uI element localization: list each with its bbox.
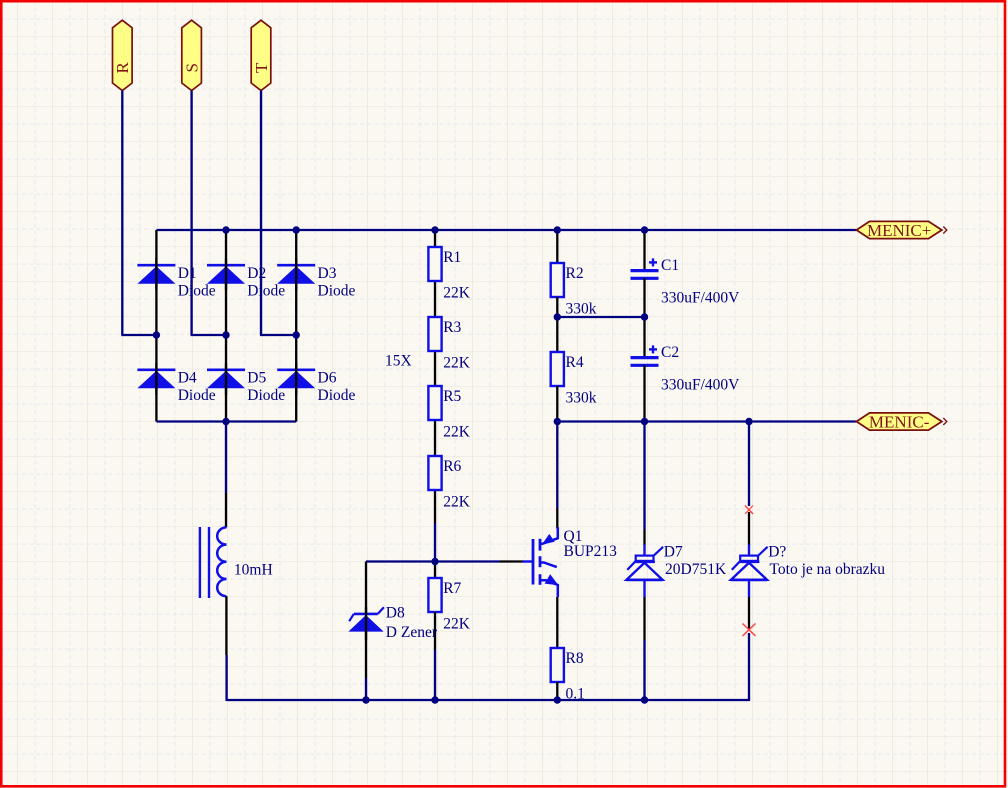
- svg-text:Diode: Diode: [247, 282, 285, 299]
- svg-text:D1: D1: [178, 265, 197, 282]
- svg-text:D2: D2: [247, 265, 266, 282]
- no-ERC marker top: [745, 506, 753, 515]
- pin C1 bottom: [643, 278, 645, 317]
- wire capacitor midpoint: [557, 316, 644, 318]
- svg-text:22K: 22K: [443, 423, 471, 440]
- svg-text:Diode: Diode: [318, 387, 356, 404]
- pin overdraw D1: [155, 258, 157, 290]
- pin D8 top: [365, 562, 367, 614]
- wire S vertical: [190, 91, 192, 335]
- pin overdraw D5: [225, 363, 227, 395]
- wire T to D3 node: [260, 334, 296, 336]
- svg-text:0.1: 0.1: [566, 685, 585, 702]
- pin R2 bottom: [556, 297, 558, 317]
- capacitor C1: [631, 257, 741, 307]
- svg-text:S: S: [182, 63, 201, 72]
- port MENIC+: [857, 221, 947, 240]
- pin R4 top: [556, 317, 558, 352]
- pin D? bottom: [748, 597, 750, 629]
- diode D1: [137, 265, 215, 300]
- pin inductor top: [225, 493, 227, 528]
- wire/pin D2-D5 column: [225, 230, 227, 422]
- svg-text:R5: R5: [443, 388, 461, 405]
- pin Q1 gate: [500, 560, 523, 562]
- pin R5-R6: [434, 420, 436, 456]
- svg-text:Diode: Diode: [318, 282, 356, 299]
- junction dot 5: [641, 226, 648, 233]
- resistor R5: [428, 386, 470, 440]
- pin R4 bottom: [556, 386, 558, 422]
- capacitor C2: [631, 344, 741, 394]
- transistor Q1 BUP213: [523, 527, 618, 597]
- svg-text:22K: 22K: [443, 354, 471, 371]
- wire R vertical: [121, 91, 123, 335]
- svg-text:D?: D?: [768, 544, 786, 561]
- svg-text:R3: R3: [443, 319, 461, 336]
- wire top bus MENIC+ net: [156, 229, 856, 231]
- svg-text:Toto je na obrazku: Toto je na obrazku: [770, 561, 886, 578]
- pin overdraw D6: [295, 363, 297, 395]
- wire gate node to R7: [434, 562, 436, 579]
- svg-text:15X: 15X: [385, 353, 412, 370]
- junction dot 15: [431, 558, 438, 565]
- wire/pin D3-D6 column: [295, 230, 297, 422]
- svg-text:R: R: [113, 61, 132, 73]
- pin R3-R5: [434, 351, 436, 386]
- resistor R1: [428, 247, 470, 301]
- wire T vertical: [260, 91, 262, 335]
- pin R8 bottom: [556, 682, 558, 700]
- wire R6 to gate node: [434, 523, 436, 562]
- pin overdraw D2: [225, 258, 227, 290]
- wire R7 to bottom bus: [434, 650, 436, 700]
- junction dot 6: [153, 331, 160, 338]
- wire D7 to bottom bus: [643, 640, 645, 700]
- pin R2 top: [556, 230, 558, 263]
- junction dot 1: [222, 226, 229, 233]
- wire bottom bus: [227, 699, 749, 701]
- pin C2 top: [643, 317, 645, 358]
- svg-text:MENIC+: MENIC+: [867, 221, 931, 240]
- pin D8 bottom: [365, 632, 367, 678]
- svg-text:Diode: Diode: [178, 282, 216, 299]
- wire D? to bottom bus: [748, 633, 750, 701]
- port R: [113, 20, 133, 90]
- resistor R3: [428, 317, 470, 371]
- wire D8 to bottom bus: [365, 678, 367, 700]
- port S: [182, 20, 202, 90]
- svg-text:D5: D5: [247, 369, 266, 386]
- svg-text:D7: D7: [664, 544, 683, 561]
- junction dot 16: [362, 696, 369, 703]
- svg-text:R6: R6: [443, 458, 461, 475]
- wire gate net horizontal: [366, 560, 500, 562]
- wire bus to Q1 collector: [556, 422, 558, 509]
- svg-text:330k: 330k: [566, 389, 597, 406]
- svg-text:D3: D3: [318, 265, 337, 282]
- svg-text:T: T: [252, 62, 271, 73]
- pin R1 top: [434, 230, 436, 247]
- svg-text:330k: 330k: [566, 300, 597, 317]
- pin D7 bottom: [643, 597, 645, 640]
- svg-text:R7: R7: [443, 580, 461, 597]
- junction dot 12: [554, 418, 561, 425]
- wire R to D1 node: [121, 334, 156, 336]
- port MENIC-: [857, 412, 947, 431]
- junction dot 19: [641, 696, 648, 703]
- svg-text:BUP213: BUP213: [564, 543, 618, 560]
- pin overdraw D3: [295, 258, 297, 290]
- svg-text:D4: D4: [178, 369, 197, 386]
- resistor R6: [428, 456, 470, 510]
- junction dot 17: [431, 696, 438, 703]
- wire/pin D1-D4 column: [155, 230, 157, 422]
- junction dot 14: [745, 418, 752, 425]
- svg-text:R1: R1: [443, 249, 461, 266]
- pin inductor bottom: [225, 596, 227, 655]
- wire MENIC- bus: [557, 420, 856, 422]
- pin overdraw D4: [155, 363, 157, 395]
- diode D8 zener: [348, 604, 437, 641]
- pin R6 bottom: [434, 490, 436, 523]
- inductor L 10mH: [200, 527, 273, 598]
- junction dot 7: [222, 331, 229, 338]
- pin R1-R3: [434, 281, 436, 317]
- junction dot 11: [641, 313, 648, 320]
- svg-text:C1: C1: [661, 257, 679, 274]
- pin D8 overdraw: [365, 607, 367, 640]
- resistor R2: [551, 263, 597, 317]
- svg-text:R4: R4: [566, 354, 584, 371]
- junction dot 13: [641, 418, 648, 425]
- junction dot 18: [554, 696, 561, 703]
- resistor R8: [551, 648, 585, 702]
- diode D5: [207, 369, 285, 404]
- junction dot 3: [431, 226, 438, 233]
- svg-text:10mH: 10mH: [234, 561, 273, 578]
- junction dot 10: [554, 313, 561, 320]
- pin R7 bottom: [434, 612, 436, 650]
- wire rail to inductor: [225, 422, 227, 494]
- svg-text:22K: 22K: [443, 615, 471, 632]
- pin D7 top: [643, 530, 645, 545]
- svg-text:20D751K: 20D751K: [665, 561, 727, 578]
- wire bus to D7: [643, 422, 645, 531]
- diode D2: [207, 265, 285, 300]
- junction dot 9: [222, 418, 229, 425]
- resistor R4: [551, 352, 597, 406]
- port T: [251, 20, 271, 90]
- svg-text:22K: 22K: [443, 493, 471, 510]
- svg-text:Diode: Diode: [178, 387, 216, 404]
- svg-text:Diode: Diode: [247, 387, 285, 404]
- svg-text:22K: 22K: [443, 284, 471, 301]
- svg-text:R8: R8: [566, 650, 584, 667]
- pin C1 top: [643, 230, 645, 271]
- pin Q1 source: [556, 597, 558, 648]
- varistor D7: [627, 544, 727, 597]
- wire inductor to bottom bus: [225, 655, 227, 701]
- no-ERC marker bottom: [743, 624, 756, 637]
- svg-text:R2: R2: [566, 265, 584, 282]
- resistor R7: [428, 578, 470, 632]
- pin D? top: [748, 512, 750, 545]
- diode D3: [277, 265, 355, 300]
- wire lower diode rail: [156, 420, 296, 422]
- junction dot 8: [293, 331, 300, 338]
- diode D4: [137, 369, 215, 404]
- pin C2 bottom: [643, 365, 645, 421]
- wire bus to D?: [748, 422, 750, 507]
- svg-text:D8: D8: [386, 604, 405, 621]
- svg-text:MENIC-: MENIC-: [869, 412, 930, 431]
- junction dot 4: [554, 226, 561, 233]
- varistor D?: [731, 544, 885, 597]
- svg-text:D6: D6: [318, 369, 337, 386]
- wire S to D2 node: [191, 334, 226, 336]
- diode D6: [277, 369, 355, 404]
- svg-text:330uF/400V: 330uF/400V: [661, 377, 740, 394]
- pin Q1 collector: [556, 508, 558, 529]
- svg-text:330uF/400V: 330uF/400V: [661, 290, 740, 307]
- svg-text:D Zener: D Zener: [386, 624, 438, 641]
- junction dot 2: [293, 226, 300, 233]
- svg-text:C2: C2: [661, 344, 679, 361]
